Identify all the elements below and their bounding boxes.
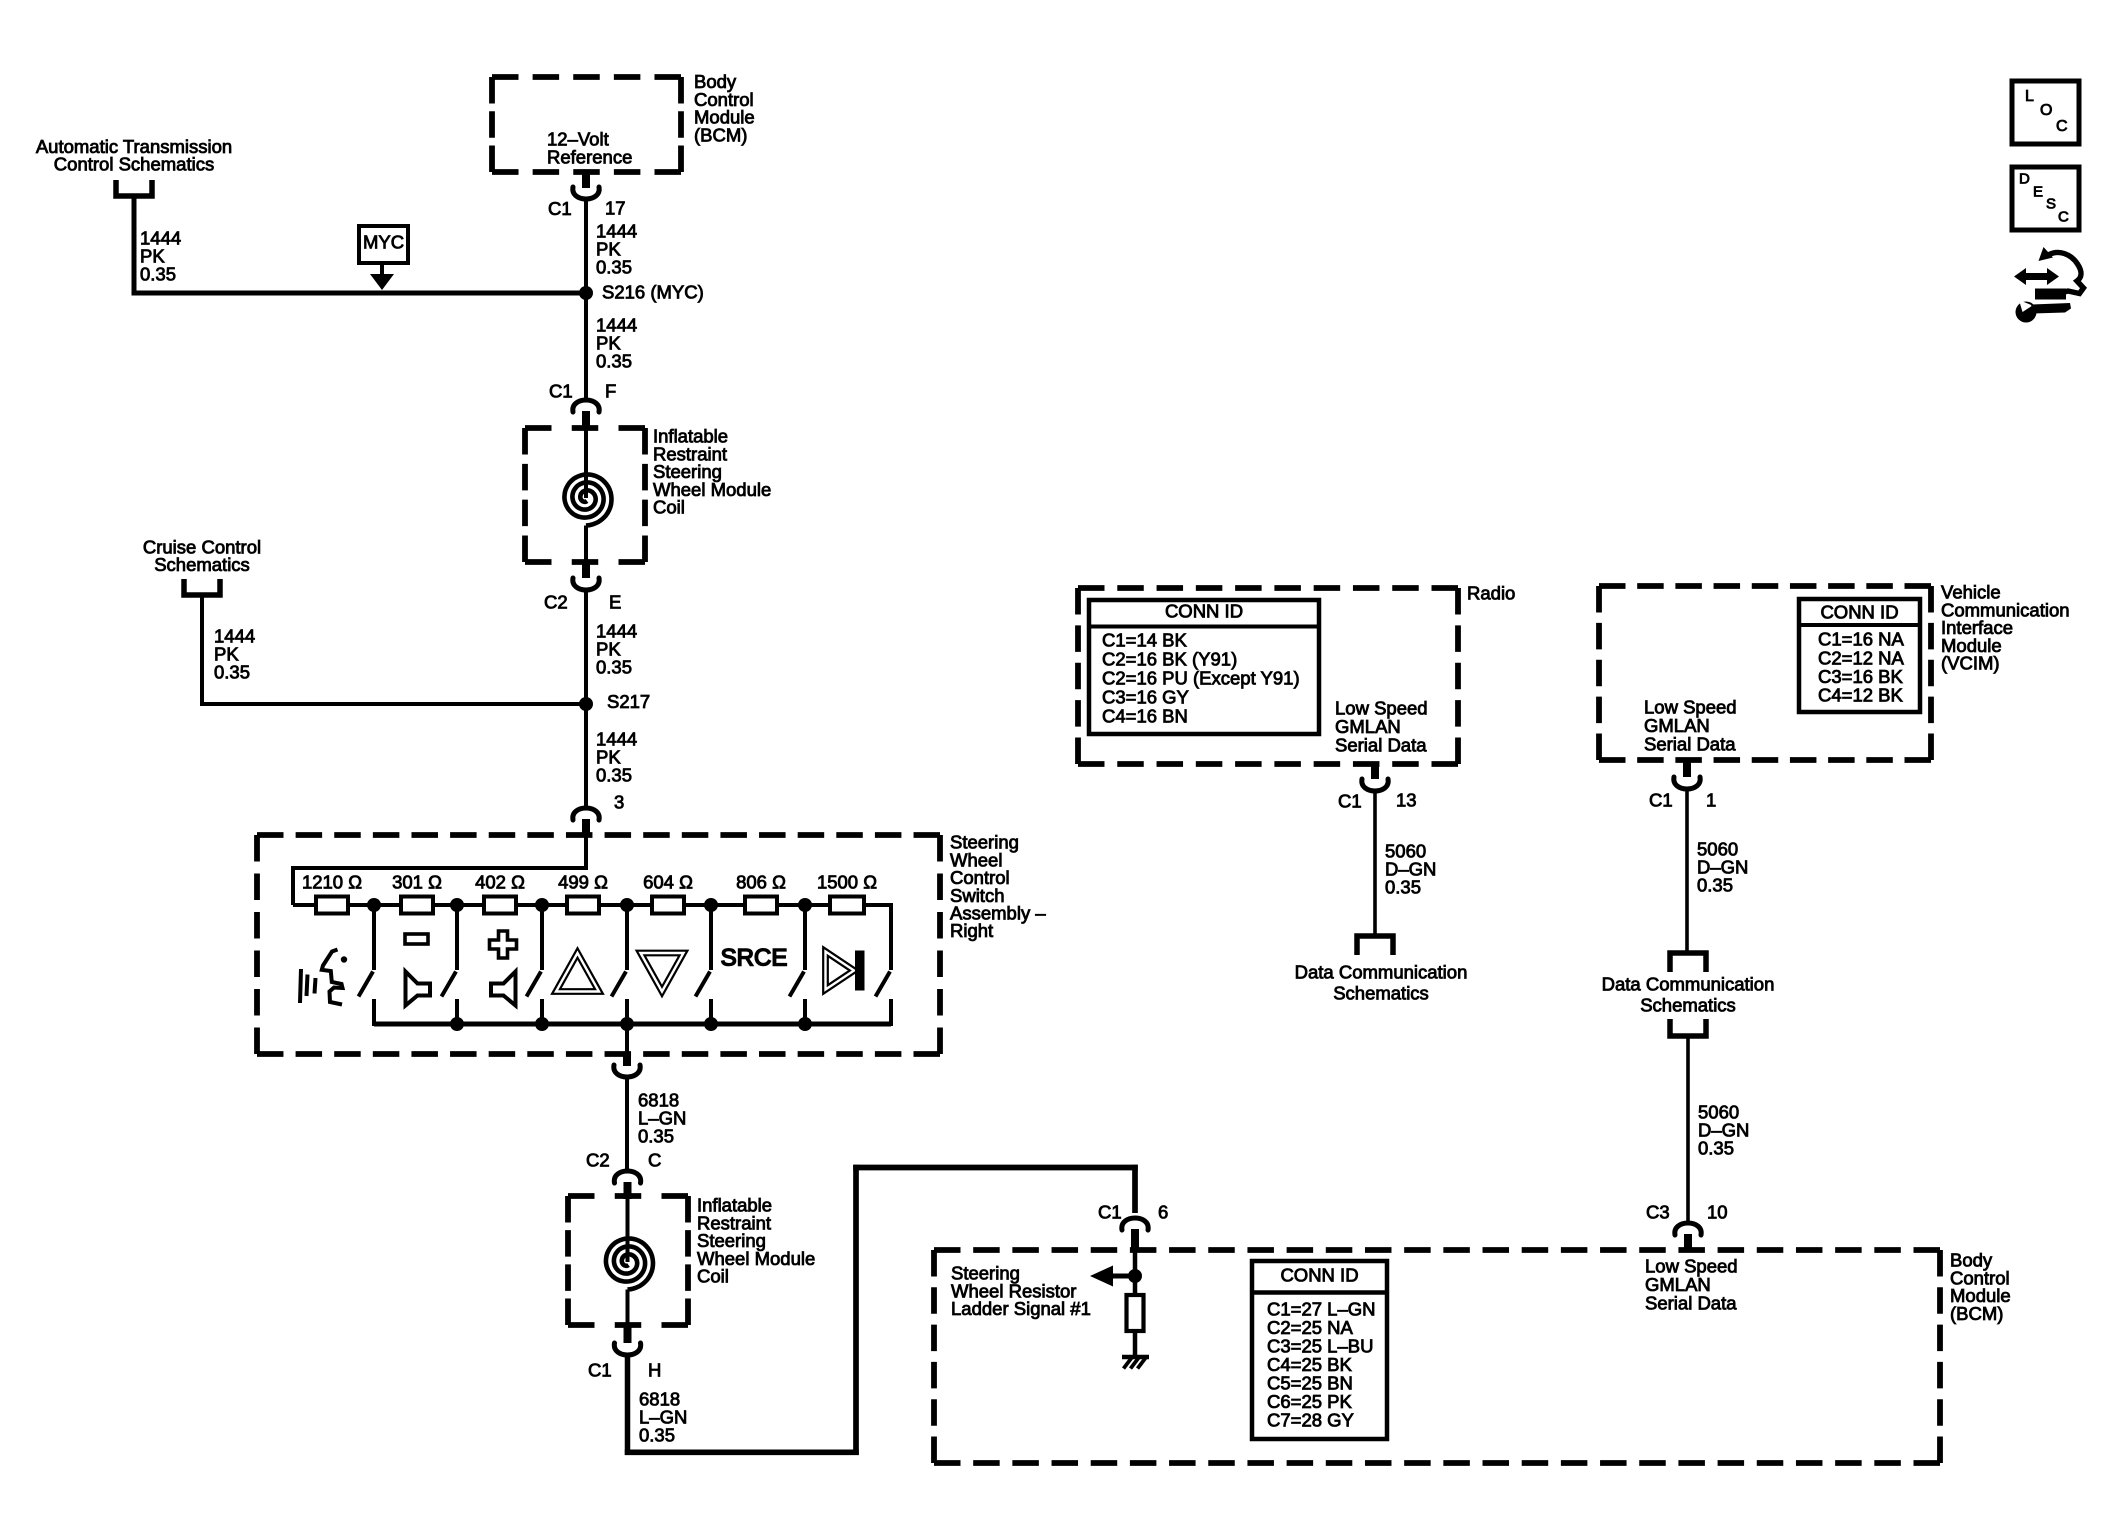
switch S6 source switch xyxy=(803,905,807,970)
connector at switch assembly output xyxy=(623,1053,631,1066)
svg-text:SRCE: SRCE xyxy=(721,945,788,972)
switch common bus wire xyxy=(374,1022,891,1027)
svg-text:0.35: 0.35 xyxy=(1698,1138,1734,1159)
wire 1444 PK from S216 to coil C1-F xyxy=(584,293,588,399)
connector ID table of VCIM xyxy=(1799,599,1920,712)
resistor R6 806 Ω xyxy=(745,897,777,914)
svg-text:Ladder Signal #1: Ladder Signal #1 xyxy=(951,1298,1091,1319)
svg-text:C1: C1 xyxy=(588,1360,612,1381)
svg-text:C2: C2 xyxy=(544,592,568,613)
next track icon xyxy=(826,952,855,990)
svg-text:0.35: 0.35 xyxy=(1697,875,1733,896)
internal junction node xyxy=(1128,1269,1142,1283)
svg-text:D: D xyxy=(2019,170,2030,187)
signal arrow (points left) xyxy=(1108,1274,1135,1279)
svg-text:806 Ω: 806 Ω xyxy=(736,872,786,893)
ground (BCM internal) xyxy=(1122,1355,1149,1360)
svg-text:1210 Ω: 1210 Ω xyxy=(302,872,362,893)
svg-text:402 Ω: 402 Ω xyxy=(475,872,525,893)
svg-text:13: 13 xyxy=(1396,790,1417,811)
svg-text:Schematics: Schematics xyxy=(1640,995,1736,1016)
connector C1 pin 13 of Radio xyxy=(1371,762,1379,779)
resistor R1 1210 Ω xyxy=(316,897,348,914)
svg-text:0.35: 0.35 xyxy=(140,264,176,285)
seek up icon xyxy=(556,953,599,992)
resistor R4 499 Ω xyxy=(567,897,599,914)
off-page reference: Data Communication Schematics (VCIM) xyxy=(1670,953,1706,972)
connector C1 pin H of steering wheel module coil (lower) xyxy=(624,1324,632,1343)
svg-text:301 Ω: 301 Ω xyxy=(392,872,442,893)
wire from pin 3 into resistor ladder xyxy=(584,836,588,870)
wire 1444 PK from Cruise Control Schematics xyxy=(200,598,204,707)
volume up (plus) icon xyxy=(490,931,517,958)
svg-text:0.35: 0.35 xyxy=(596,257,632,278)
voice recognition icon xyxy=(300,969,301,1003)
resistor R2 301 Ω xyxy=(401,897,433,914)
svg-text:C4=16 BN: C4=16 BN xyxy=(1102,706,1188,727)
svg-text:0.35: 0.35 xyxy=(639,1425,675,1446)
svg-text:C1=14 BK: C1=14 BK xyxy=(1102,630,1188,651)
wire 5060 D-GN from Radio C1-13 xyxy=(1373,791,1377,936)
svg-text:C2: C2 xyxy=(586,1150,610,1171)
svg-text:C: C xyxy=(2056,118,2068,135)
resistor R3 402 Ω xyxy=(484,897,516,914)
connector C1 pin 1 of VCIM xyxy=(1683,758,1691,777)
svg-text:0.35: 0.35 xyxy=(596,765,632,786)
svg-text:C1: C1 xyxy=(548,198,572,219)
wire 1444 PK from BCM C1-17 to splice S216 xyxy=(584,199,588,295)
wire 6818 L-GN from coil C1-H to BCM C1-6 xyxy=(625,1355,631,1455)
net reference tag MYC xyxy=(359,226,408,263)
svg-text:O: O xyxy=(2040,102,2052,119)
svg-text:C3: C3 xyxy=(1646,1202,1670,1223)
svg-text:C2=16 BK (Y91): C2=16 BK (Y91) xyxy=(1102,649,1237,670)
wire 1444 PK from S217 to switch assembly pin 3 xyxy=(584,704,588,807)
volume down (minus) icon xyxy=(405,934,428,944)
legend icon: navigation arrows and wrench xyxy=(2014,247,2084,323)
volume down speaker icon xyxy=(406,972,431,1006)
module: Body Control Module (BCM) bottom xyxy=(934,1247,1940,1253)
wire 5060 D-GN from Data Communication Schematics to BCM C3-10 xyxy=(1686,1038,1690,1221)
switch S3 volume up switch xyxy=(540,905,544,970)
svg-text:Coil: Coil xyxy=(653,497,685,518)
switch S4 seek up switch xyxy=(625,905,629,970)
svg-text:604 Ω: 604 Ω xyxy=(643,872,693,893)
svg-text:17: 17 xyxy=(605,198,626,219)
svg-text:6: 6 xyxy=(1158,1202,1168,1223)
module: Vehicle Communication Interface Module (VCIM) xyxy=(1599,583,1931,589)
svg-text:0.35: 0.35 xyxy=(214,662,250,683)
svg-text:C7=28 GY: C7=28 GY xyxy=(1267,1410,1354,1431)
svg-text:E: E xyxy=(2033,183,2043,200)
svg-text:Radio: Radio xyxy=(1467,583,1515,604)
svg-text:MYC: MYC xyxy=(363,232,404,253)
svg-text:Serial Data: Serial Data xyxy=(1644,734,1736,755)
svg-text:C2=16 PU (Except Y91): C2=16 PU (Except Y91) xyxy=(1102,668,1300,689)
svg-text:C1: C1 xyxy=(1338,791,1362,812)
switch S2 volume down switch xyxy=(455,905,459,970)
svg-text:499 Ω: 499 Ω xyxy=(558,872,608,893)
svg-text:Reference: Reference xyxy=(547,146,632,167)
resistor ladder series wire xyxy=(293,903,316,907)
svg-text:E: E xyxy=(609,592,621,613)
svg-text:C1: C1 xyxy=(1098,1202,1122,1223)
seek down icon xyxy=(641,953,684,992)
svg-text:(BCM): (BCM) xyxy=(1950,1303,2003,1324)
svg-text:S: S xyxy=(2046,195,2056,212)
svg-text:0.35: 0.35 xyxy=(1385,877,1421,898)
resistor R5 604 Ω xyxy=(652,897,684,914)
legend icon LOC xyxy=(2012,81,2079,144)
switch S7 next track switch xyxy=(876,972,891,997)
connector ID table of Radio xyxy=(1089,600,1319,734)
svg-text:H: H xyxy=(648,1360,661,1381)
volume up speaker icon xyxy=(491,972,516,1006)
wire 5060 D-GN from VCIM C1-1 xyxy=(1685,789,1689,951)
wire 1444 PK from coil C2-E to splice S217 xyxy=(584,590,588,706)
splice S217 xyxy=(579,697,593,711)
svg-text:C1: C1 xyxy=(549,381,573,402)
svg-text:C: C xyxy=(648,1150,661,1171)
legend icon DESC xyxy=(2012,167,2079,230)
module: Body Control Module (BCM) 12-Volt Reference xyxy=(492,74,681,80)
off-page reference: Data Communication Schematics (Radio) xyxy=(1357,936,1393,955)
switch S1 voice recognition switch xyxy=(372,905,376,970)
svg-text:C1: C1 xyxy=(1649,790,1673,811)
svg-text:S216 (MYC): S216 (MYC) xyxy=(602,282,704,303)
svg-text:(VCIM): (VCIM) xyxy=(1941,653,2000,674)
connector ID table of BCM xyxy=(1252,1261,1387,1439)
splice S216 (MYC) xyxy=(579,286,593,300)
svg-text:0.35: 0.35 xyxy=(596,657,632,678)
svg-text:(BCM): (BCM) xyxy=(694,124,747,145)
svg-text:Control Schematics: Control Schematics xyxy=(54,154,214,175)
svg-text:Schematics: Schematics xyxy=(154,554,250,575)
svg-text:Schematics: Schematics xyxy=(1333,983,1429,1004)
svg-text:Data Communication: Data Communication xyxy=(1295,962,1468,983)
svg-text:10: 10 xyxy=(1707,1202,1728,1223)
svg-text:CONN ID: CONN ID xyxy=(1820,602,1898,623)
svg-text:S217: S217 xyxy=(607,691,650,712)
module: Radio xyxy=(1078,585,1458,591)
internal pull resistor xyxy=(1127,1295,1144,1331)
svg-text:Serial Data: Serial Data xyxy=(1645,1293,1737,1314)
svg-text:Serial Data: Serial Data xyxy=(1335,735,1427,756)
svg-text:CONN ID: CONN ID xyxy=(1280,1265,1358,1286)
svg-text:Coil: Coil xyxy=(697,1266,729,1287)
svg-text:F: F xyxy=(605,381,616,402)
resistor R7 1500 Ω xyxy=(830,897,864,914)
svg-text:0.35: 0.35 xyxy=(638,1126,674,1147)
svg-text:C: C xyxy=(2058,208,2069,225)
svg-text:Data Communication: Data Communication xyxy=(1602,974,1775,995)
svg-text:0.35: 0.35 xyxy=(596,351,632,372)
resistor ladder junction nodes xyxy=(367,898,381,912)
wire 1444 PK from Automatic Transmission Control Schematics xyxy=(132,199,137,296)
svg-text:1: 1 xyxy=(1706,790,1716,811)
svg-text:CONN ID: CONN ID xyxy=(1165,601,1243,622)
connector C1 pin 17 of BCM xyxy=(582,170,590,188)
wire into BCM to internal node xyxy=(1133,1252,1138,1297)
inflatable restraint steering wheel module coil (lower) xyxy=(568,1193,688,1199)
inflatable restraint steering wheel module coil (upper) xyxy=(525,425,645,431)
svg-text:1500 Ω: 1500 Ω xyxy=(817,872,877,893)
module: Steering Wheel Control Switch Assembly - Right xyxy=(257,832,940,838)
wire from switch bus to assembly connector xyxy=(625,1024,629,1054)
switch S5 seek down switch xyxy=(709,905,713,970)
svg-text:Right: Right xyxy=(950,920,993,941)
connector C2 pin E of steering wheel module coil xyxy=(582,561,590,578)
svg-text:L: L xyxy=(2025,88,2034,105)
svg-text:C4=12 BK: C4=12 BK xyxy=(1818,685,1904,706)
wire 6818 L-GN from switch assembly to coil C2-C xyxy=(625,1077,629,1172)
svg-text:C3=16 GY: C3=16 GY xyxy=(1102,687,1189,708)
svg-text:3: 3 xyxy=(614,792,624,813)
